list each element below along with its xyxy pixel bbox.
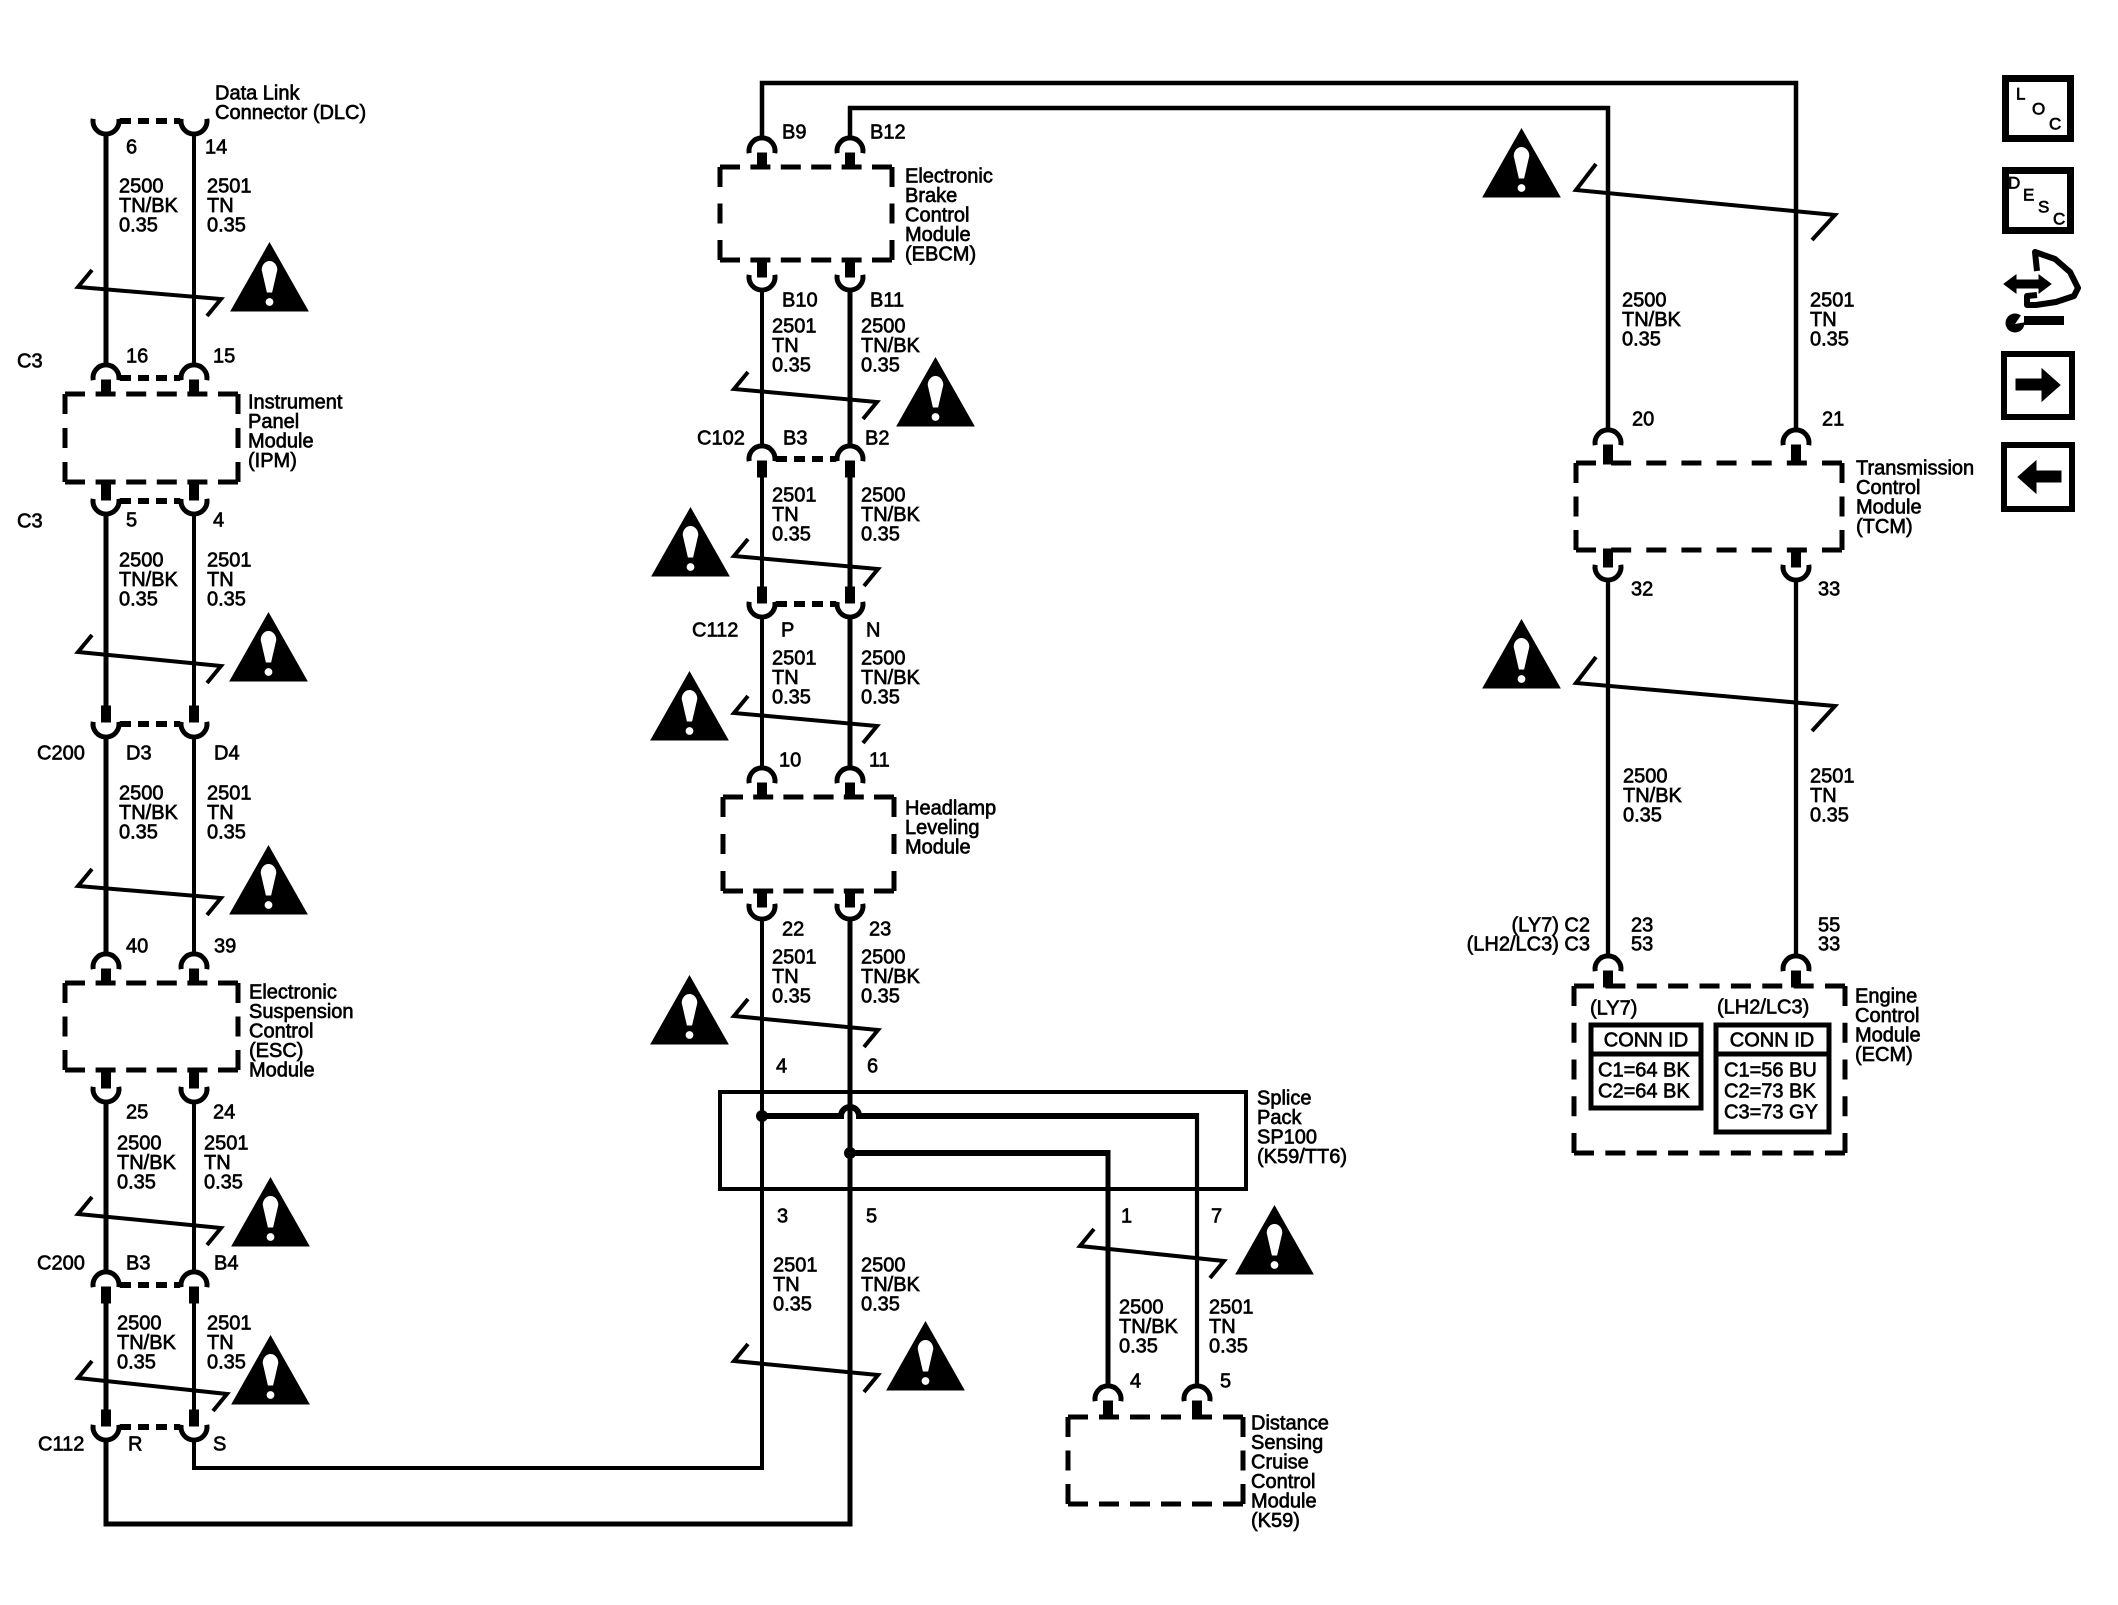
svg-text:B3: B3 xyxy=(126,1253,150,1275)
svg-text:5: 5 xyxy=(126,510,137,532)
wire label 2500 TN/BK 0.35 xyxy=(119,176,179,237)
svg-text:0.35: 0.35 xyxy=(207,589,246,611)
connector HLM pin 22 socket xyxy=(758,890,767,907)
svg-text:C1=56 BU: C1=56 BU xyxy=(1724,1060,1817,1082)
connector C200 pin D4 xyxy=(190,706,199,722)
wire 2501 TN TCM:33 to ECM xyxy=(1794,581,1798,955)
splice bus pin6 to pin1 xyxy=(850,1150,1108,1156)
wire label 2500 TN/BK 0.35 xyxy=(861,1255,921,1316)
svg-text:40: 40 xyxy=(126,936,148,958)
svg-text:24: 24 xyxy=(213,1102,235,1124)
wire label 2500 TN/BK 0.35 xyxy=(117,1313,177,1374)
svg-text:0.35: 0.35 xyxy=(204,1172,243,1194)
twisted pair crossing symbol xyxy=(78,635,221,683)
wire label 2500 TN/BK 0.35 xyxy=(119,783,179,844)
warning triangle xyxy=(652,508,729,576)
label Electronic Brake Control Module (EBCM) xyxy=(905,166,993,266)
connector TCM pin 33 socket xyxy=(1792,549,1801,567)
svg-text:0.35: 0.35 xyxy=(117,1352,156,1374)
svg-text:B12: B12 xyxy=(870,122,906,144)
svg-text:Module: Module xyxy=(905,837,971,859)
svg-text:0.35: 0.35 xyxy=(1622,329,1661,351)
wire 2500 TN/BK IPM:5 to C200:D3 xyxy=(104,515,109,706)
connector K59 pin 5 socket xyxy=(1184,1386,1210,1401)
svg-text:16: 16 xyxy=(126,346,148,368)
wire label 2500 TN/BK 0.35 xyxy=(119,550,179,611)
junction dot splice pin4 xyxy=(757,1111,768,1122)
connector TCM pin 20 socket xyxy=(1595,430,1621,445)
svg-text:O: O xyxy=(2032,100,2045,119)
svg-text:0.35: 0.35 xyxy=(861,687,900,709)
svg-text:D3: D3 xyxy=(126,743,152,765)
svg-text:(LH2/LC3) C3: (LH2/LC3) C3 xyxy=(1467,934,1590,956)
svg-text:0.35: 0.35 xyxy=(773,1294,812,1316)
wire label 2501 TN 0.35 xyxy=(207,1313,252,1374)
wire label 2500 TN/BK 0.35 xyxy=(1623,766,1683,827)
warning triangle xyxy=(897,358,974,426)
connector HLM pin 10 socket xyxy=(749,768,775,783)
svg-text:0.35: 0.35 xyxy=(861,524,900,546)
svg-text:D: D xyxy=(2008,174,2020,193)
svg-text:15: 15 xyxy=(213,346,235,368)
svg-text:C2=64 BK: C2=64 BK xyxy=(1598,1081,1690,1103)
warning triangle xyxy=(230,613,307,681)
svg-text:B2: B2 xyxy=(865,428,889,450)
wire 2500 TN/BK TCM:32 to ECM xyxy=(1606,581,1610,955)
svg-text:0.35: 0.35 xyxy=(119,215,158,237)
warning triangle xyxy=(1236,1206,1313,1274)
wire label 2501 TN 0.35 xyxy=(773,1255,818,1316)
svg-text:Module: Module xyxy=(249,1060,315,1082)
module IPM dashed box xyxy=(65,394,238,482)
icon forward arrow xyxy=(2016,369,2060,401)
connector C112 face dashed line xyxy=(776,601,836,607)
warning triangle xyxy=(1483,620,1560,688)
svg-text:B9: B9 xyxy=(782,122,806,144)
splice bus pin4 to pin7 with hop xyxy=(762,1107,1197,1116)
connector C200 pin B3 xyxy=(93,1272,119,1287)
svg-text:0.35: 0.35 xyxy=(207,215,246,237)
icon service tools double arrow xyxy=(2004,275,2051,293)
connector C3 face dashed line (top) xyxy=(120,375,180,381)
svg-text:0.35: 0.35 xyxy=(772,524,811,546)
svg-text:0.35: 0.35 xyxy=(1810,329,1849,351)
connector C112 pin R xyxy=(102,1410,111,1426)
svg-text:5: 5 xyxy=(1220,1371,1231,1393)
svg-text:5: 5 xyxy=(866,1206,877,1228)
svg-text:C112: C112 xyxy=(38,1434,84,1456)
connector DLC face dashed line xyxy=(120,118,180,124)
svg-text:21: 21 xyxy=(1822,409,1844,431)
connector EBCM pin B12 socket xyxy=(837,138,863,153)
svg-text:P: P xyxy=(781,620,794,642)
twisted pair crossing symbol xyxy=(734,696,877,743)
svg-text:CONN ID: CONN ID xyxy=(1730,1030,1814,1052)
module ESC dashed box xyxy=(65,983,238,1070)
twisted pair crossing symbol xyxy=(1080,1229,1224,1278)
icon LOC box xyxy=(2006,79,2071,139)
connector IPM pin 15 socket xyxy=(181,365,207,380)
wire 2501 TN DLC:14 to IPM:15 xyxy=(192,135,196,364)
connector DLC pin 14 socket xyxy=(181,119,207,134)
svg-text:6: 6 xyxy=(126,137,137,159)
connector C112 pin N xyxy=(846,587,855,603)
svg-text:CONN ID: CONN ID xyxy=(1604,1030,1688,1052)
svg-text:0.35: 0.35 xyxy=(207,822,246,844)
connector ESC pin 39 socket xyxy=(181,954,207,969)
svg-text:B10: B10 xyxy=(782,290,818,312)
wire label 2501 TN 0.35 xyxy=(772,316,817,377)
warning triangle xyxy=(887,1322,964,1390)
svg-text:3: 3 xyxy=(777,1206,788,1228)
svg-text:(IPM): (IPM) xyxy=(248,450,297,472)
svg-text:39: 39 xyxy=(214,936,236,958)
svg-text:33: 33 xyxy=(1818,579,1840,601)
wire label 2501 TN 0.35 xyxy=(772,947,817,1008)
svg-text:C112: C112 xyxy=(692,620,738,642)
svg-text:(LH2/LC3): (LH2/LC3) xyxy=(1717,997,1809,1019)
svg-text:0.35: 0.35 xyxy=(861,986,900,1008)
label Data Link Connector (DLC) title xyxy=(215,83,366,125)
connector ESC pin 40 socket xyxy=(93,954,119,969)
svg-text:0.35: 0.35 xyxy=(1209,1336,1248,1358)
svg-text:25: 25 xyxy=(126,1102,148,1124)
wire 2501 TN EBCM:B9 to TCM:21 xyxy=(762,83,1796,430)
svg-text:E: E xyxy=(2023,186,2034,205)
twisted pair crossing symbol xyxy=(734,372,877,419)
svg-text:4: 4 xyxy=(213,510,224,532)
icon forward arrow box xyxy=(2004,354,2072,417)
junction dot splice pin6 xyxy=(845,1148,856,1159)
connector ECM pin 23/53 socket xyxy=(1595,956,1621,971)
wire label 2500 TN/BK 0.35 xyxy=(861,648,921,709)
twisted pair crossing symbol xyxy=(734,999,878,1047)
wire label 2501 TN 0.35 xyxy=(1810,290,1855,351)
wire label 2501 TN 0.35 xyxy=(772,648,817,709)
svg-text:20: 20 xyxy=(1632,409,1654,431)
wire 2500 TN/BK C200:D3 to ESC:40 xyxy=(104,738,109,953)
svg-text:14: 14 xyxy=(205,137,227,159)
connector IPM pin 5 socket xyxy=(102,481,111,500)
module ECM dashed box xyxy=(1574,986,1845,1153)
svg-text:C2=73 BK: C2=73 BK xyxy=(1724,1081,1816,1103)
svg-text:0.35: 0.35 xyxy=(1119,1336,1158,1358)
connector EBCM pin B10 socket xyxy=(758,259,767,277)
wire 2501 TN C200:D4 to ESC:39 xyxy=(192,738,196,953)
svg-text:32: 32 xyxy=(1631,579,1653,601)
wire 2500 TN/BK EBCM:B11 to C102:B2 xyxy=(848,291,853,445)
wire label 2500 TN/BK 0.35 xyxy=(1622,290,1682,351)
svg-text:C1=64 BK: C1=64 BK xyxy=(1598,1060,1690,1082)
svg-text:S: S xyxy=(2038,198,2049,217)
connector TCM pin 32 socket xyxy=(1604,549,1613,567)
svg-text:C200: C200 xyxy=(37,743,85,765)
svg-text:0.35: 0.35 xyxy=(119,589,158,611)
twisted pair crossing symbol xyxy=(78,270,221,316)
icon DESC box xyxy=(2006,171,2071,231)
connector EBCM pin B9 socket xyxy=(749,138,775,153)
svg-text:C102: C102 xyxy=(697,428,745,450)
svg-text:C3: C3 xyxy=(17,511,43,533)
wire label 2501 TN 0.35 xyxy=(204,1133,249,1194)
wire 2500 TN/BK C112:R to splice SP100 pin 5 xyxy=(106,1153,850,1524)
label Instrument Panel Module (IPM) xyxy=(248,392,343,473)
icon service tools wrench xyxy=(2006,308,2065,333)
connector C102 pin B3 xyxy=(749,446,775,461)
wire label 2501 TN 0.35 xyxy=(772,485,817,546)
connector IPM pin 16 socket xyxy=(93,365,119,380)
svg-text:23: 23 xyxy=(869,919,891,941)
twisted pair crossing symbol xyxy=(734,1344,878,1392)
icon service tools outline xyxy=(2027,252,2078,305)
twisted pair crossing symbol xyxy=(734,539,878,586)
twisted pair crossing symbol xyxy=(1576,164,1835,240)
svg-text:4: 4 xyxy=(776,1056,787,1078)
connector C102 face dashed line xyxy=(776,456,836,462)
connector C200 pin B4 xyxy=(181,1272,207,1287)
svg-text:C3=73 GY: C3=73 GY xyxy=(1724,1102,1818,1124)
svg-text:53: 53 xyxy=(1631,934,1653,956)
label Engine Control Module (ECM) xyxy=(1855,986,1921,1067)
table CONN ID (LH2/LC3) box xyxy=(1716,1025,1829,1132)
svg-text:B11: B11 xyxy=(870,290,904,312)
svg-text:0.35: 0.35 xyxy=(861,355,900,377)
svg-text:0.35: 0.35 xyxy=(772,986,811,1008)
svg-text:(ECM): (ECM) xyxy=(1855,1044,1913,1066)
svg-text:B3: B3 xyxy=(783,428,807,450)
svg-text:4: 4 xyxy=(1130,1371,1141,1393)
label Electronic Suspension Control (ESC) Module xyxy=(249,982,354,1082)
connector ESC pin 24 socket xyxy=(190,1069,199,1088)
svg-text:C: C xyxy=(2049,115,2061,134)
connector ECM pin 55/33 socket xyxy=(1783,956,1809,971)
wire 2501 TN C102:B3 to C112:P xyxy=(760,477,764,588)
svg-text:(LY7): (LY7) xyxy=(1590,998,1637,1020)
svg-text:22: 22 xyxy=(782,919,804,941)
wire label 2501 TN 0.35 xyxy=(207,783,252,844)
svg-text:C: C xyxy=(2053,210,2065,229)
warning triangle xyxy=(232,1336,309,1404)
svg-text:(K59): (K59) xyxy=(1251,1510,1300,1532)
wire label 2500 TN/BK 0.35 xyxy=(861,316,921,377)
module EBCM dashed box xyxy=(720,167,892,260)
wire 2500 TN/BK DLC:6 to IPM:16 xyxy=(104,135,109,364)
svg-text:0.35: 0.35 xyxy=(772,355,811,377)
connector C112 pin S xyxy=(190,1410,199,1426)
wire 2500 TN/BK ESC:25 to C200:B3 xyxy=(104,1103,109,1271)
svg-text:0.35: 0.35 xyxy=(119,822,158,844)
wire label 2501 TN 0.35 xyxy=(1810,766,1855,827)
svg-text:Connector (DLC): Connector (DLC) xyxy=(215,102,366,124)
svg-text:(TCM): (TCM) xyxy=(1856,516,1913,538)
svg-text:L: L xyxy=(2016,85,2025,104)
svg-text:1: 1 xyxy=(1121,1206,1132,1228)
svg-text:0.35: 0.35 xyxy=(1623,805,1662,827)
warning triangle xyxy=(1483,129,1560,197)
label Splice Pack SP100 (K59/TT6) xyxy=(1257,1088,1347,1169)
svg-text:R: R xyxy=(128,1434,142,1456)
wire 2500 TN/BK C200:B3 to C112:R xyxy=(104,1303,109,1410)
connector ESC pin 25 socket xyxy=(102,1069,111,1088)
svg-text:N: N xyxy=(866,620,880,642)
connector IPM pin 4 socket xyxy=(190,481,199,500)
connector C200 face dashed line (lower) xyxy=(120,1282,180,1288)
wire 2501 TN C112:S to splice SP100 pin 3 xyxy=(194,1116,762,1468)
wire label 2501 TN 0.35 xyxy=(1209,1297,1254,1358)
svg-text:C3: C3 xyxy=(17,351,43,373)
warning triangle xyxy=(230,846,307,914)
connector HLM pin 11 socket xyxy=(837,768,863,783)
module K59 dashed box xyxy=(1068,1417,1243,1504)
wire label 2500 TN/BK 0.35 xyxy=(117,1133,177,1194)
connector C112 face dashed line xyxy=(120,1424,180,1430)
svg-text:0.35: 0.35 xyxy=(861,1294,900,1316)
icon back arrow xyxy=(2018,461,2061,493)
svg-text:33: 33 xyxy=(1818,934,1840,956)
module TCM dashed box xyxy=(1576,463,1842,550)
warning triangle xyxy=(651,976,728,1044)
svg-text:10: 10 xyxy=(779,750,801,772)
warning triangle xyxy=(231,243,308,311)
wire 2501 TN IPM:4 to C200:D4 xyxy=(192,515,196,706)
connector C102 pin B2 xyxy=(837,446,863,461)
wire label 2501 TN 0.35 xyxy=(207,176,252,237)
connector TCM pin 21 socket xyxy=(1783,430,1809,445)
svg-text:D4: D4 xyxy=(214,743,240,765)
wire 2501 TN EBCM:B10 to C102:B3 xyxy=(760,291,764,445)
wire label 2501 TN 0.35 xyxy=(207,550,252,611)
icon back arrow box xyxy=(2004,445,2072,509)
wire 2501 TN C112:P to HLM:10 xyxy=(760,618,764,767)
twisted pair crossing symbol xyxy=(78,1361,227,1411)
wire 2501 TN ESC:24 to C200:B4 xyxy=(192,1103,196,1271)
table CONN ID (LY7) box xyxy=(1591,1025,1701,1108)
connector EBCM pin B11 socket xyxy=(846,259,855,277)
splice pack SP100 box xyxy=(720,1092,1246,1189)
svg-text:(EBCM): (EBCM) xyxy=(905,244,976,266)
wire 2500 TN/BK C102:B2 to C112:N xyxy=(848,477,853,588)
wire label 2500 TN/BK 0.35 xyxy=(861,485,921,546)
wire 2500 TN/BK EBCM:B12 to TCM:20 xyxy=(850,108,1608,430)
connector DLC pin 6 socket xyxy=(93,119,119,134)
wire label 2500 TN/BK 0.35 xyxy=(1119,1297,1179,1358)
svg-text:7: 7 xyxy=(1211,1206,1222,1228)
svg-text:6: 6 xyxy=(867,1056,878,1078)
connector C200 face dashed line xyxy=(120,721,180,727)
twisted pair crossing symbol xyxy=(78,1197,221,1245)
connector K59 pin 4 socket xyxy=(1095,1386,1121,1401)
svg-text:0.35: 0.35 xyxy=(207,1352,246,1374)
wire label 2500 TN/BK 0.35 xyxy=(861,947,921,1008)
warning triangle xyxy=(651,672,728,740)
svg-text:0.35: 0.35 xyxy=(772,687,811,709)
warning triangle xyxy=(232,1178,309,1246)
label Transmission Control Module (TCM) xyxy=(1856,458,1974,539)
twisted pair crossing symbol xyxy=(1576,657,1835,731)
wire 2500 TN/BK C112:N to HLM:11 xyxy=(848,618,853,767)
twisted pair crossing symbol xyxy=(78,869,221,915)
svg-text:11: 11 xyxy=(869,750,890,772)
label Headlamp Leveling Module xyxy=(905,798,996,859)
svg-text:C200: C200 xyxy=(37,1253,85,1275)
wire 2500 TN/BK HLM:23 to splice SP100 pin 6 xyxy=(848,920,853,1524)
connector C112 pin P xyxy=(758,587,767,603)
connector C3 face dashed line (bottom) xyxy=(120,498,180,504)
svg-text:B4: B4 xyxy=(214,1253,238,1275)
svg-text:S: S xyxy=(213,1434,226,1456)
svg-text:0.35: 0.35 xyxy=(117,1172,156,1194)
wire 2501 TN C200:B4 to C112:S xyxy=(192,1303,196,1410)
connector C200 pin D3 xyxy=(102,706,111,722)
svg-text:0.35: 0.35 xyxy=(1810,805,1849,827)
wire 2501 TN HLM:22 to splice SP100 pin 4 xyxy=(760,920,764,1468)
label Distance Sensing Cruise Control Module (K59) xyxy=(1251,1413,1329,1533)
module Headlamp Leveling dashed box xyxy=(723,797,894,891)
connector HLM pin 23 socket xyxy=(846,890,855,907)
svg-text:(K59/TT6): (K59/TT6) xyxy=(1257,1146,1347,1168)
